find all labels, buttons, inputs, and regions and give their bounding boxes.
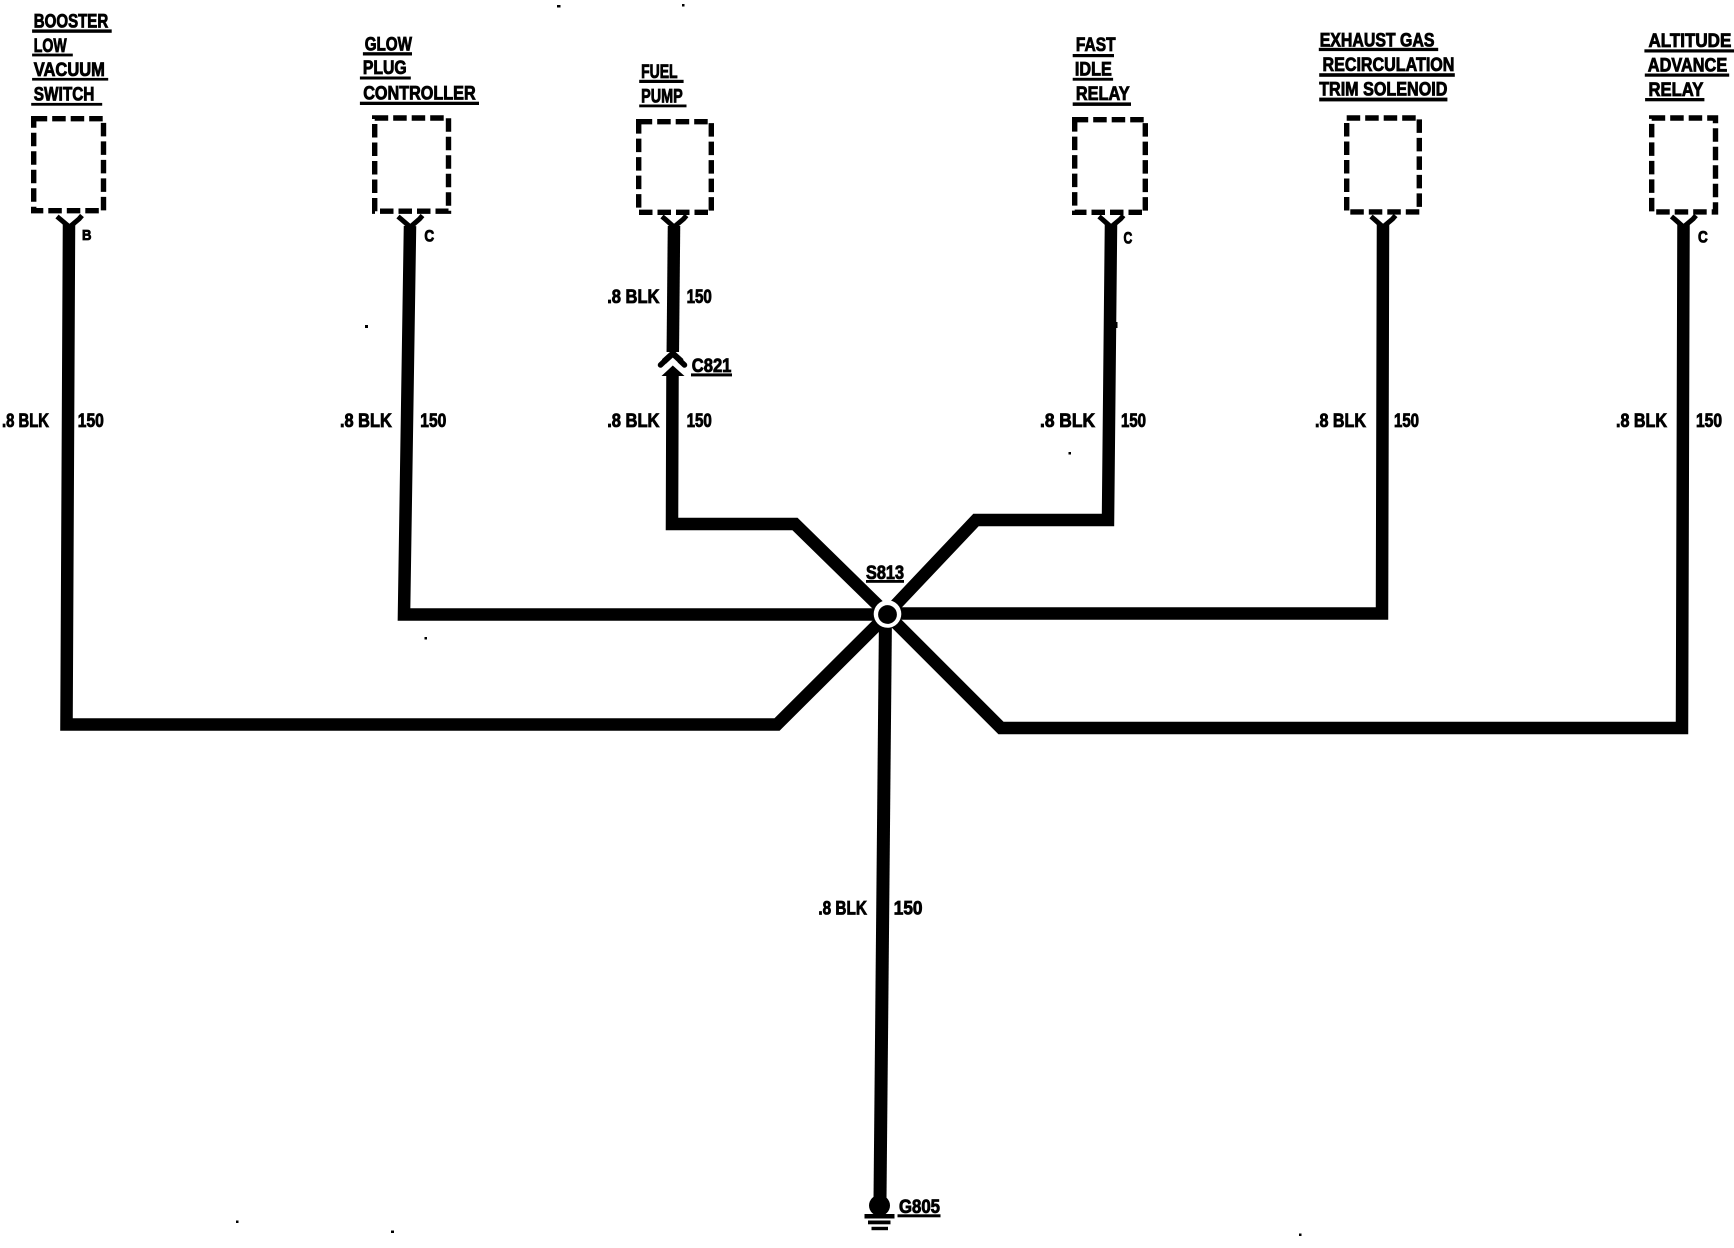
- svg-text:.8 BLK: .8 BLK: [1616, 411, 1667, 432]
- svg-text:.8 BLK: .8 BLK: [607, 287, 660, 308]
- wire glow plug controller to splice S813 (.8 BLK 150): [340, 226, 888, 615]
- wire splice S813 to ground G805 (.8 BLK 150): [818, 614, 922, 1200]
- svg-text:FAST: FAST: [1076, 35, 1116, 56]
- label FUEL PUMP: [639, 62, 686, 108]
- svg-text:BOOSTER: BOOSTER: [34, 12, 109, 33]
- svg-text:RELAY: RELAY: [1649, 80, 1704, 101]
- svg-text:.8 BLK: .8 BLK: [1040, 411, 1095, 432]
- glow plug controller box: [375, 118, 449, 211]
- label ALTITUDE ADVANCE RELAY: [1644, 31, 1734, 102]
- svg-text:.8 BLK: .8 BLK: [340, 411, 392, 432]
- svg-text:150: 150: [420, 411, 446, 432]
- wire fuel pump to connector C821 (.8 BLK 150): [607, 226, 712, 352]
- label GLOW PLUG CONTROLLER: [360, 35, 479, 105]
- svg-text:C: C: [424, 227, 434, 246]
- svg-text:150: 150: [1121, 411, 1146, 432]
- svg-text:RELAY: RELAY: [1076, 84, 1130, 105]
- terminal C of altitude advance relay: [1672, 216, 1708, 247]
- terminal of fuel pump: [662, 216, 687, 228]
- svg-text:SWITCH: SWITCH: [34, 84, 95, 105]
- svg-text:150: 150: [687, 411, 712, 432]
- svg-text:C: C: [1698, 228, 1708, 247]
- in-line connector C821: [661, 354, 733, 377]
- svg-text:150: 150: [687, 287, 712, 308]
- svg-text:.8 BLK: .8 BLK: [1315, 411, 1366, 432]
- terminal B of booster switch: [57, 216, 92, 245]
- terminal C of fast idle relay: [1099, 216, 1132, 248]
- ground G805: [865, 1195, 941, 1230]
- svg-text:.8 BLK: .8 BLK: [818, 899, 867, 920]
- svg-text:150: 150: [78, 411, 104, 432]
- wire fast idle relay to splice S813 (.8 BLK 150): [888, 224, 1147, 614]
- splice S813: [866, 563, 904, 628]
- svg-text:FUEL: FUEL: [641, 62, 678, 83]
- altitude advance relay box: [1652, 118, 1716, 212]
- terminal of EGR trim solenoid: [1371, 216, 1396, 228]
- svg-text:CONTROLLER: CONTROLLER: [363, 84, 476, 105]
- svg-text:IDLE: IDLE: [1075, 60, 1112, 81]
- wire booster switch to splice S813 (.8 BLK 150): [2, 224, 888, 725]
- svg-text:RECIRCULATION: RECIRCULATION: [1323, 55, 1455, 76]
- svg-text:PUMP: PUMP: [641, 87, 683, 108]
- svg-text:C: C: [1124, 229, 1133, 248]
- svg-text:150: 150: [894, 899, 923, 920]
- svg-text:150: 150: [1394, 411, 1419, 432]
- svg-text:ADVANCE: ADVANCE: [1648, 55, 1727, 76]
- wire connector C821 to splice S813 (.8 BLK 150): [607, 373, 887, 615]
- fast idle relay box: [1075, 120, 1146, 213]
- svg-text:.8 BLK: .8 BLK: [2, 411, 49, 432]
- fuel pump box: [639, 122, 712, 213]
- svg-text:ALTITUDE: ALTITUDE: [1649, 31, 1732, 52]
- svg-text:.8 BLK: .8 BLK: [607, 411, 660, 432]
- label BOOSTER LOW VACUUM SWITCH: [31, 12, 112, 106]
- label EXHAUST GAS RECIRCULATION TRIM SOLENOID: [1319, 31, 1455, 102]
- svg-text:PLUG: PLUG: [363, 58, 407, 79]
- exhaust gas recirculation trim solenoid box: [1347, 118, 1420, 212]
- terminal C of glow plug controller: [398, 216, 434, 246]
- wire altitude advance relay to splice S813 (.8 BLK 150): [888, 224, 1723, 728]
- scan specks: [236, 4, 1302, 1236]
- wire EGR trim solenoid to splice S813 (.8 BLK 150): [888, 224, 1420, 614]
- svg-text:150: 150: [1696, 411, 1722, 432]
- svg-text:B: B: [82, 227, 92, 244]
- svg-text:TRIM SOLENOID: TRIM SOLENOID: [1319, 80, 1447, 101]
- booster low vacuum switch box: [34, 119, 104, 211]
- label FAST IDLE RELAY: [1073, 35, 1131, 106]
